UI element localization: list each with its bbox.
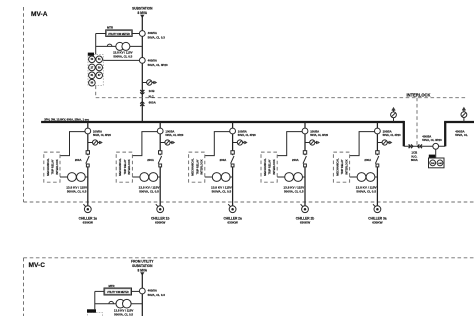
svg-text:1CB: 1CB: [149, 89, 156, 93]
svg-text:50VA, CL 0.3: 50VA, CL 0.3: [148, 35, 166, 39]
svg-text:630KW: 630KW: [372, 221, 382, 225]
svg-text:600A: 600A: [411, 158, 419, 162]
svg-text:600A: 600A: [149, 100, 157, 104]
svg-text:400/5A: 400/5A: [148, 58, 158, 62]
svg-text:N.C.: N.C.: [149, 95, 155, 99]
svg-text:MV-C: MV-C: [29, 262, 46, 269]
svg-text:630KW: 630KW: [300, 221, 310, 225]
svg-text:UTILITY KW METER: UTILITY KW METER: [108, 34, 130, 36]
svg-text:50VA, CL 0.3: 50VA, CL 0.3: [148, 293, 166, 297]
svg-text:500VA, CL 0.5: 500VA, CL 0.5: [113, 55, 132, 59]
svg-text:3PH, 3W, 13.8KV, 600A, 25kA, 1: 3PH, 3W, 13.8KV, 600A, 25kA, 1 sec: [44, 117, 89, 121]
svg-text:AM: AM: [438, 162, 442, 165]
svg-text:SUBSTATION: SUBSTATION: [132, 264, 153, 268]
svg-text:630KW: 630KW: [227, 221, 237, 225]
svg-text:500VA, CL 0.5: 500VA, CL 0.5: [114, 313, 133, 316]
svg-text:8 MVA: 8 MVA: [138, 11, 148, 15]
svg-text:INTERLOCK: INTERLOCK: [407, 92, 431, 97]
svg-text:FROM UTILITY: FROM UTILITY: [131, 260, 154, 264]
svg-text:50VA, CL 3P20: 50VA, CL 3P20: [148, 63, 168, 67]
svg-text:50VA, CL 3P20: 50VA, CL 3P20: [422, 138, 442, 142]
svg-text:MV-A: MV-A: [31, 11, 48, 18]
svg-text:MTR: MTR: [108, 284, 114, 288]
svg-text:8 MVA: 8 MVA: [138, 269, 148, 273]
svg-text:400/5A: 400/5A: [148, 289, 158, 293]
svg-text:UTILITY KW METER: UTILITY KW METER: [107, 292, 129, 294]
svg-text:630KW: 630KW: [83, 221, 93, 225]
svg-text:630KW: 630KW: [155, 221, 165, 225]
svg-text:400/5A: 400/5A: [148, 31, 158, 35]
svg-text:50VA, CL: 50VA, CL: [455, 133, 468, 137]
svg-text:DM: DM: [431, 163, 435, 165]
svg-text:MTR: MTR: [107, 26, 113, 30]
